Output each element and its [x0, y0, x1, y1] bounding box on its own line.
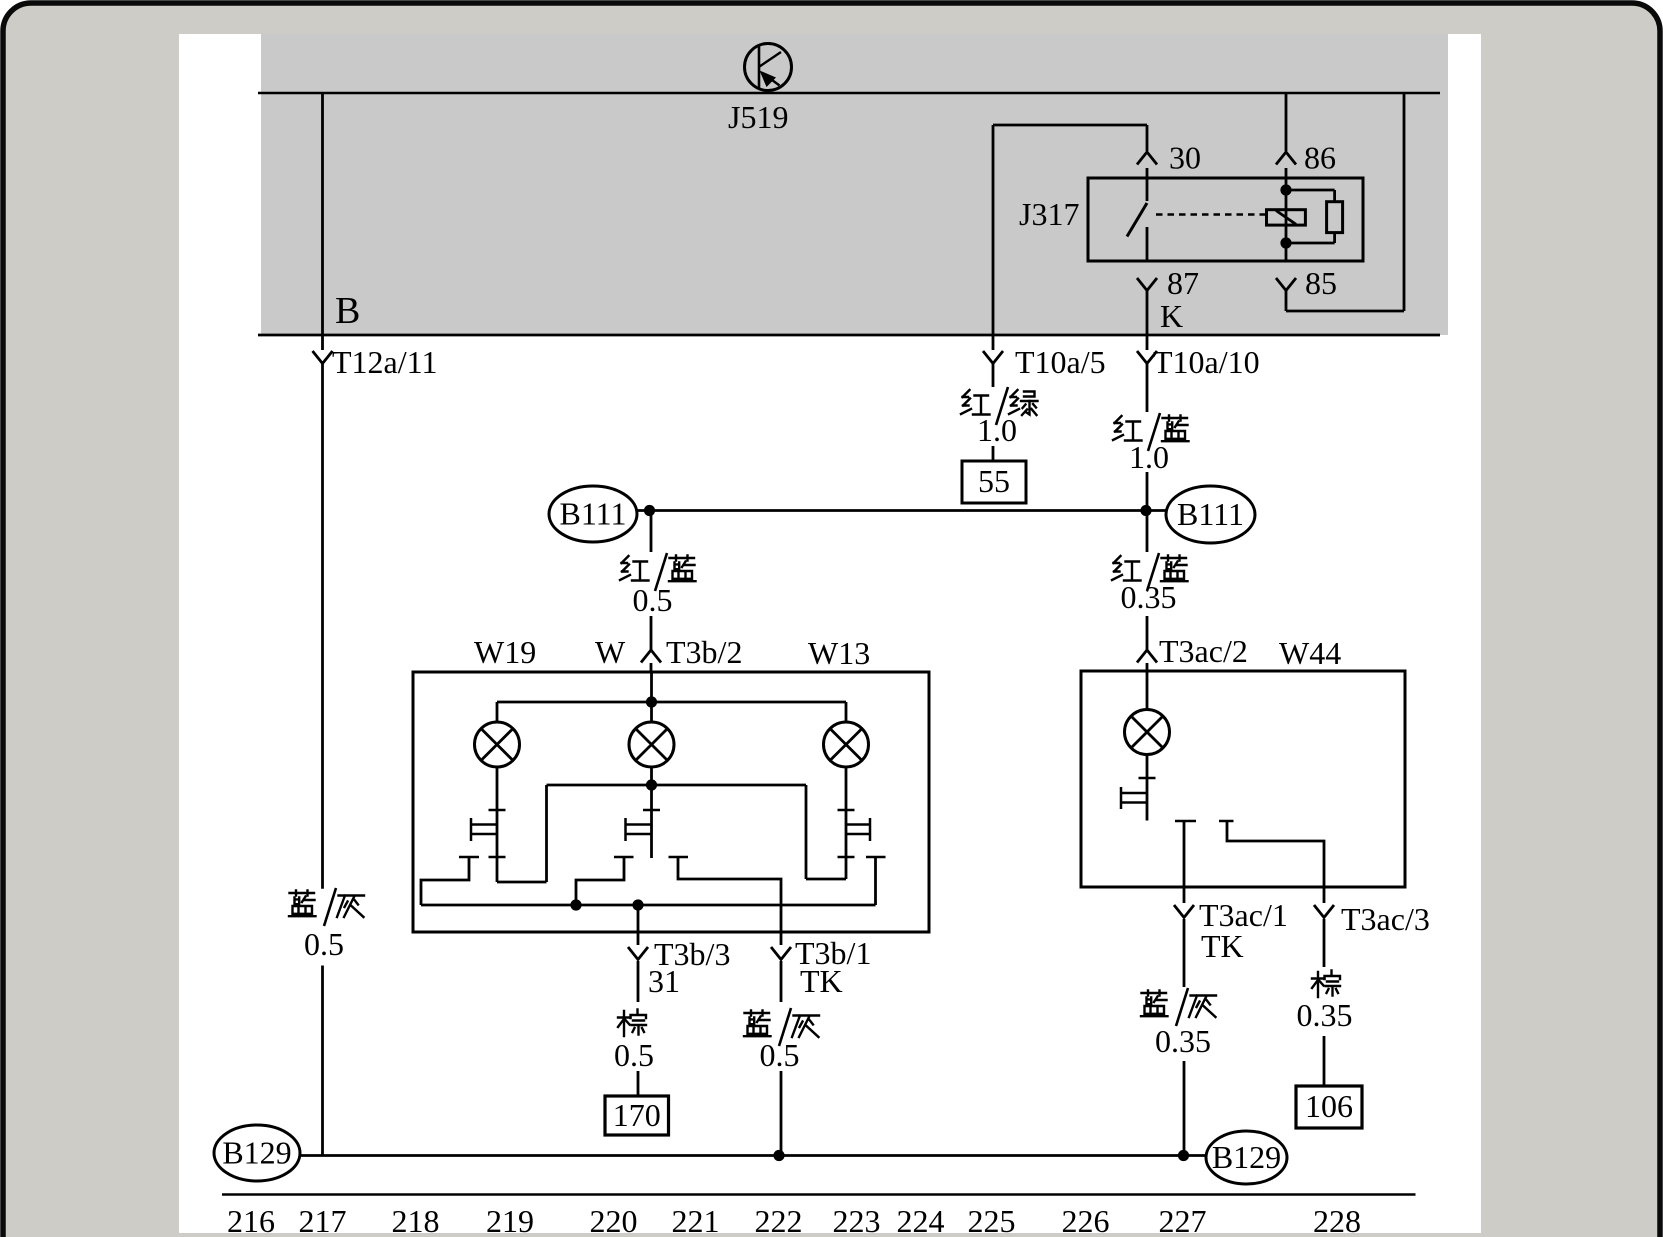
svg-text:T12a/11: T12a/11 [332, 344, 437, 380]
svg-text:86: 86 [1304, 140, 1336, 176]
svg-text:0.5: 0.5 [633, 582, 673, 618]
svg-text:B111: B111 [1177, 496, 1244, 532]
svg-text:T3ac/2: T3ac/2 [1159, 633, 1248, 669]
svg-text:220: 220 [590, 1203, 638, 1237]
svg-text:85: 85 [1305, 265, 1337, 301]
svg-text:170: 170 [613, 1097, 661, 1133]
svg-text:K: K [1160, 298, 1183, 334]
svg-text:B111: B111 [560, 496, 627, 532]
svg-text:1.0: 1.0 [977, 412, 1017, 448]
svg-text:1.0: 1.0 [1129, 439, 1169, 475]
svg-text:225: 225 [968, 1203, 1016, 1237]
svg-text:221: 221 [672, 1203, 720, 1237]
svg-text:T3ac/3: T3ac/3 [1341, 901, 1430, 937]
svg-text:TK: TK [800, 963, 843, 999]
svg-text:55: 55 [978, 463, 1010, 499]
svg-text:216: 216 [227, 1203, 275, 1237]
svg-text:219: 219 [486, 1203, 534, 1237]
svg-text:30: 30 [1169, 140, 1201, 176]
svg-text:226: 226 [1062, 1203, 1110, 1237]
svg-text:223: 223 [833, 1203, 881, 1237]
svg-text:0.5: 0.5 [614, 1037, 654, 1073]
svg-text:87: 87 [1167, 265, 1199, 301]
svg-text:T10a/10: T10a/10 [1153, 344, 1260, 380]
svg-text:218: 218 [392, 1203, 440, 1237]
svg-text:W13: W13 [808, 635, 870, 671]
svg-text:W44: W44 [1279, 635, 1341, 671]
svg-text:0.35: 0.35 [1121, 579, 1177, 615]
svg-text:TK: TK [1201, 928, 1244, 964]
svg-text:227: 227 [1159, 1203, 1207, 1237]
svg-text:217: 217 [299, 1203, 347, 1237]
svg-text:J317: J317 [1019, 196, 1079, 232]
svg-text:B: B [335, 290, 360, 332]
svg-text:J519: J519 [728, 99, 788, 135]
svg-text:0.35: 0.35 [1297, 997, 1353, 1033]
svg-text:0.5: 0.5 [304, 926, 344, 962]
svg-text:224: 224 [897, 1203, 945, 1237]
svg-text:0.5: 0.5 [760, 1037, 800, 1073]
svg-text:106: 106 [1305, 1088, 1353, 1124]
svg-text:T3b/2: T3b/2 [666, 634, 742, 670]
svg-text:31: 31 [648, 963, 680, 999]
svg-text:B129: B129 [222, 1135, 291, 1171]
svg-text:222: 222 [755, 1203, 803, 1237]
svg-text:B129: B129 [1212, 1139, 1281, 1175]
svg-text:0.35: 0.35 [1155, 1023, 1211, 1059]
svg-text:T10a/5: T10a/5 [1015, 344, 1106, 380]
svg-text:W: W [595, 634, 626, 670]
svg-text:228: 228 [1313, 1203, 1361, 1237]
svg-text:W19: W19 [474, 634, 536, 670]
